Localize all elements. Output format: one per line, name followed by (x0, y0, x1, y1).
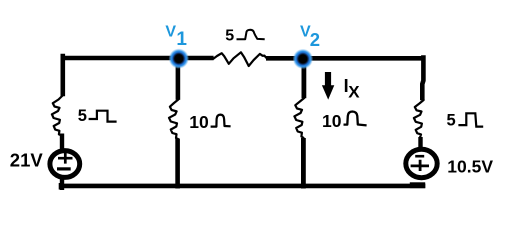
current arrow Ix shaft (325, 72, 331, 86)
voltage source 21V minus sign (57, 167, 71, 170)
resistor 5 ohm right branch (414, 100, 424, 138)
svg-text:X: X (348, 83, 360, 102)
wire bottom left end tick (59, 183, 63, 190)
wire right branch lower (418, 137, 422, 150)
resistor 10 ohm V2 branch (294, 98, 304, 138)
ohm symbol V1 branch resistor (211, 115, 231, 127)
wire left branch lower (60, 134, 64, 151)
wire left branch upper (60, 54, 65, 96)
wire bottom right merge segment (410, 182, 425, 188)
ohm symbol right resistor (458, 113, 483, 126)
svg-text:5: 5 (225, 28, 234, 45)
resistor 5 ohm left branch (52, 96, 63, 136)
voltage source 10.5V plus sign (411, 160, 429, 171)
voltage source 21V circle (50, 151, 80, 178)
node V1 dot (169, 48, 189, 68)
voltage source 21V plus sign (58, 152, 73, 164)
voltage source 10.5V minus sign (415, 155, 424, 158)
ohm symbol left resistor (89, 111, 117, 122)
voltage source 10.5V circle (406, 149, 437, 177)
svg-text:10: 10 (189, 112, 209, 132)
ohm symbol V2 branch resistor (344, 112, 367, 126)
wire top left segment (61, 56, 214, 61)
svg-text:5: 5 (447, 111, 456, 129)
wire V2 branch lower (301, 138, 306, 189)
svg-text:21V: 21V (10, 150, 44, 171)
svg-text:10: 10 (322, 111, 342, 131)
wire bottom (60, 184, 425, 189)
wire V1 branch lower (175, 139, 180, 189)
current arrow Ix head (322, 85, 334, 99)
wire top right segment (266, 56, 424, 61)
wire V2 branch upper (301, 59, 306, 99)
wire left source bottom stub (60, 178, 64, 191)
svg-text:2: 2 (310, 29, 320, 50)
wire right branch upper (422, 55, 423, 100)
svg-text:1: 1 (176, 29, 187, 50)
resistor 5 ohm top (between V1 and V2) (214, 52, 267, 66)
node V2 dot (293, 49, 313, 69)
resistor 10 ohm V1 branch (169, 100, 178, 140)
svg-text:V: V (165, 24, 176, 41)
svg-text:10.5V: 10.5V (447, 156, 493, 176)
wire V1 branch upper (176, 59, 181, 100)
svg-text:5: 5 (78, 107, 87, 125)
ohm symbol top resistor (237, 30, 265, 40)
